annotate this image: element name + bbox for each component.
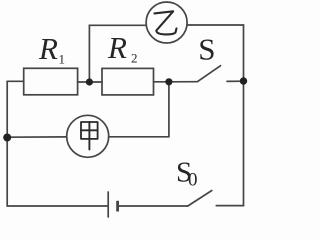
svg-text:1: 1 (59, 52, 66, 67)
wire bottom to battery (7, 205, 108, 207)
svg-text:2: 2 (131, 51, 138, 66)
wire meter to top-right corner and right vertical (187, 25, 244, 206)
switch S wire to pivot (169, 81, 198, 83)
battery short plate (116, 201, 119, 212)
wire battery to S0 pivot (118, 205, 188, 207)
svg-text:R: R (107, 30, 127, 65)
battery long plate (107, 192, 109, 217)
svg-text:S: S (198, 31, 215, 66)
node B junction dot (240, 77, 247, 84)
node D junction dot (3, 134, 11, 142)
wire R2 to node C (154, 81, 169, 83)
wire node A to R2 (89, 81, 102, 83)
resistor R1 (24, 68, 78, 95)
meter U1 glyph middle horizontal (81, 129, 98, 131)
switch S0 fixed contact (216, 205, 243, 207)
meter U1 glyph (jia) box (81, 122, 98, 139)
wire meter to node D (7, 136, 66, 138)
svg-text:0: 0 (188, 170, 198, 191)
wire left stub to R1 (7, 80, 24, 82)
meter U1 circle (67, 115, 109, 157)
wire node A up and top to meter (89, 25, 146, 82)
switch S blade (197, 66, 220, 82)
switch S fixed contact (227, 80, 244, 82)
node C junction dot (165, 78, 172, 85)
wire R1 to node A (78, 81, 90, 83)
resistor R2 (102, 68, 154, 95)
meter U2 glyph (yi) (154, 11, 176, 34)
svg-text:R: R (38, 31, 58, 66)
meter U1 glyph vertical stroke (88, 122, 90, 150)
wire node C down to meter row (109, 82, 169, 137)
meter U2 circle (146, 2, 187, 43)
wire left vertical (6, 81, 8, 206)
switch S0 blade (188, 191, 212, 207)
node A junction dot (86, 78, 93, 85)
